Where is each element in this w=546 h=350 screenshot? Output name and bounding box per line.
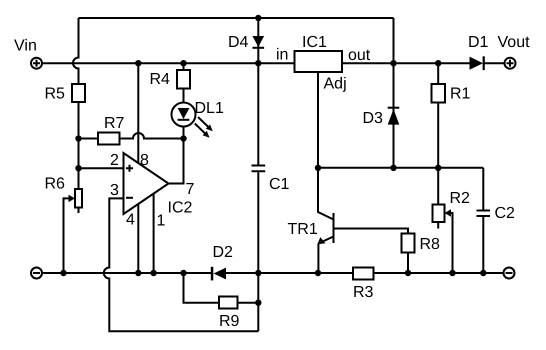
wire IC1 Adj: [317, 72, 319, 168]
resistor R8: [402, 234, 415, 253]
svg-text:IC2: IC2: [168, 200, 193, 217]
wire R5 column: [78, 102, 80, 189]
wire R9 right: [238, 302, 259, 304]
wire R9 left branch: [184, 273, 220, 303]
wire mid horizontal Adj net: [318, 167, 483, 169]
LED DL1 light arrow 2: [193, 121, 212, 140]
capacitor C1 plates: [252, 166, 266, 172]
svg-text:Vout: Vout: [498, 34, 531, 51]
svg-text:R7: R7: [104, 115, 125, 132]
wire C2 top: [482, 168, 484, 210]
svg-text:C1: C1: [269, 176, 290, 193]
wire op-amp pin3 route with hop over ground rail: [104, 198, 258, 331]
svg-text:1: 1: [157, 213, 166, 230]
svg-text:D4: D4: [228, 34, 249, 51]
op-amp minus input sign: [126, 197, 133, 199]
terminal Vin plus: [31, 58, 42, 69]
wire TR1 collector: [318, 168, 334, 220]
svg-text:D3: D3: [363, 110, 384, 127]
wire op-amp pin1: [153, 184, 155, 274]
wire op-amp pin8: [137, 63, 139, 166]
svg-text:R3: R3: [353, 284, 374, 301]
wire R6 bottom stub: [78, 208, 80, 214]
resistor R1: [432, 84, 446, 103]
wire R8 bottom: [407, 253, 409, 274]
wire top-right vertical: [393, 18, 395, 63]
svg-text:out: out: [348, 47, 371, 64]
wire DL1 bottom: [183, 127, 185, 139]
svg-text:R8: R8: [420, 236, 441, 253]
resistor R9: [219, 297, 238, 309]
svg-text:7: 7: [186, 181, 195, 198]
svg-text:Vin: Vin: [14, 38, 37, 55]
junction node dots: [135, 60, 141, 66]
svg-text:in: in: [276, 47, 288, 64]
wire R4 top: [183, 63, 185, 70]
svg-text:TR1: TR1: [288, 221, 318, 238]
wire R6 wiper to ground rail: [64, 198, 69, 273]
diode D4: [253, 36, 265, 47]
svg-text:R6: R6: [45, 176, 66, 193]
wire op-amp pin7 to DL1 node: [169, 139, 184, 184]
wire top rail: [79, 17, 394, 19]
svg-text:IC1: IC1: [302, 34, 327, 51]
wire R7 left: [79, 138, 99, 140]
diode D1: [470, 57, 484, 70]
LED DL1 circle: [172, 103, 196, 127]
wire C1 branch lower through rail to R9 net: [257, 172, 259, 331]
wire R2 wiper to rail: [450, 213, 453, 273]
wire out horizontal: [342, 62, 470, 64]
wire R1 bottom to R2 top: [437, 103, 439, 205]
R2 wiper arrow head: [445, 209, 452, 216]
wire to Vout terminal: [484, 62, 505, 64]
svg-text:DL1: DL1: [195, 100, 224, 117]
R6 wiper arrow head: [69, 195, 76, 202]
wire TR1 emitter: [318, 237, 333, 274]
wire R7 right with hop over pin8 line: [120, 133, 184, 139]
diode D2: [214, 268, 227, 280]
resistor R7: [98, 133, 120, 145]
svg-text:R4: R4: [150, 71, 171, 88]
svg-text:R5: R5: [45, 86, 66, 103]
potentiometer R6: [75, 189, 82, 208]
wire R2 bottom stub: [437, 222, 439, 229]
op-amp IC2 triangle: [124, 153, 169, 214]
svg-text:D1: D1: [468, 34, 489, 51]
wire op-amp pin4: [137, 204, 139, 273]
wire C1 branch upper: [257, 63, 259, 164]
svg-text:2: 2: [110, 152, 119, 169]
svg-text:Adj: Adj: [324, 76, 347, 93]
wire top-left vertical with hop over Vin wire: [73, 18, 79, 84]
wire C2 bottom: [482, 217, 484, 273]
op-amp plus input sign: [126, 165, 133, 172]
wire ground rail left section: [43, 272, 213, 274]
TR1 emitter arrow head: [317, 237, 325, 244]
svg-text:8: 8: [140, 152, 149, 169]
wire R1 top: [437, 63, 439, 84]
terminal Vout plus: [505, 58, 516, 69]
svg-text:3: 3: [110, 182, 119, 199]
wire op-amp pin2: [79, 167, 124, 169]
resistor R3: [353, 268, 374, 280]
wire Vin horizontal: [43, 62, 295, 64]
wire TR1 base to R8: [334, 229, 409, 234]
regulator IC1: [295, 51, 343, 72]
wire D3 branch: [393, 63, 395, 168]
svg-text:D2: D2: [213, 244, 234, 261]
diode D3: [388, 109, 400, 125]
resistor R4: [177, 70, 190, 89]
terminal gnd right minus: [504, 268, 515, 279]
LED DL1 triangle and bar: [178, 108, 190, 119]
terminal gnd left minus: [31, 268, 42, 279]
transistor TR1 base bar: [333, 213, 335, 243]
svg-text:R2: R2: [450, 190, 471, 207]
wire D4 branch: [257, 18, 259, 63]
potentiometer R2: [433, 205, 445, 223]
LED DL1 light arrow 1: [196, 115, 215, 134]
svg-text:C2: C2: [495, 205, 516, 222]
resistor R5: [72, 84, 85, 102]
svg-text:R1: R1: [450, 86, 471, 103]
capacitor C2 plates: [477, 211, 491, 217]
wire R4 to DL1: [183, 89, 185, 103]
svg-text:R9: R9: [219, 313, 240, 330]
wire ground rail middle section: [226, 272, 353, 274]
wire ground rail right section: [374, 272, 504, 274]
svg-text:4: 4: [126, 212, 135, 229]
